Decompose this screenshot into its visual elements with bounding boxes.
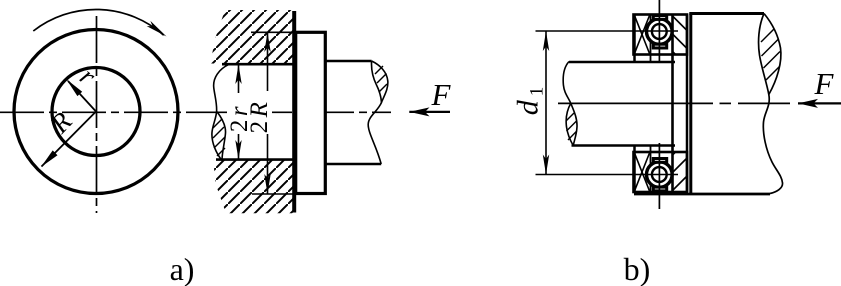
label r bbox=[74, 61, 102, 91]
bottom ball outer bbox=[647, 162, 673, 188]
label F (fig b) bbox=[814, 66, 835, 101]
svg-text:b): b) bbox=[624, 251, 651, 286]
extension line 2R bottom bbox=[252, 193, 294, 195]
bottom ball inner bbox=[652, 167, 667, 182]
extension line d1 bottom bbox=[536, 174, 679, 176]
dimension line 2r bbox=[235, 64, 241, 159]
top bearing block outline bbox=[634, 15, 688, 55]
label 2R bbox=[246, 91, 273, 134]
bottom race shoulder upper bbox=[653, 159, 666, 163]
hub right face line bbox=[671, 15, 674, 193]
label 2r bbox=[226, 93, 253, 134]
sleeve top edge bbox=[689, 12, 764, 15]
top race shoulder upper bbox=[653, 16, 666, 20]
dimension line 2R bbox=[264, 32, 270, 194]
journal break hatch bbox=[213, 119, 225, 156]
rotation arc arrow bbox=[33, 9, 166, 36]
force arrow F (fig a) bbox=[409, 107, 450, 116]
vertical centerline (fig b) bbox=[658, 0, 660, 209]
top ball outer bbox=[647, 19, 673, 45]
bottom race shoulder lower bbox=[653, 187, 666, 191]
bearing housing right edge bbox=[686, 15, 689, 193]
shaft lower edge bbox=[326, 163, 382, 166]
extension line 2R top bbox=[251, 31, 294, 33]
journal break line bbox=[212, 64, 229, 160]
horizontal centerline (fig a) bbox=[0, 111, 391, 113]
vertical centerline (fig a) bbox=[96, 16, 98, 213]
wall hatching upper bbox=[210, 10, 293, 64]
bottom bearing left cell X bbox=[635, 153, 650, 191]
top ball inner bbox=[652, 24, 667, 39]
journal hole upper edge bbox=[222, 63, 293, 66]
svg-text:a): a) bbox=[170, 251, 195, 286]
small shaft break hatch bbox=[566, 113, 577, 140]
svg-text:F: F bbox=[431, 77, 452, 112]
svg-text:F: F bbox=[814, 66, 835, 101]
journal hole lower edge bbox=[216, 158, 293, 161]
force arrow F (fig b) bbox=[798, 99, 841, 108]
hub left face line bbox=[633, 15, 636, 193]
sleeve break line bbox=[759, 14, 783, 194]
svg-text:2R: 2R bbox=[246, 99, 273, 134]
extension line d1 top bbox=[536, 30, 679, 32]
wall hatching lower bbox=[213, 160, 293, 213]
flange bbox=[296, 32, 326, 193]
label R bbox=[44, 106, 78, 140]
top bearing left cell divider bbox=[650, 15, 652, 63]
inner circle bbox=[52, 68, 140, 156]
bottom bearing block outline bbox=[634, 152, 688, 192]
label F (fig a) bbox=[431, 77, 452, 112]
shaft break hatch bbox=[375, 66, 387, 92]
top race shoulder lower bbox=[653, 44, 666, 48]
top bearing right cell diagonals bbox=[673, 16, 688, 55]
label a) bbox=[170, 251, 195, 286]
dimension line d1 bbox=[543, 31, 549, 175]
sleeve left face bbox=[689, 14, 692, 194]
small shaft break line bbox=[563, 62, 577, 146]
label b) bbox=[624, 251, 651, 286]
shaft upper edge bbox=[326, 60, 372, 63]
bottom bearing right cell diagonals bbox=[673, 152, 688, 191]
outer circle bbox=[14, 30, 178, 194]
wall face line bbox=[292, 11, 296, 213]
small shaft lower edge bbox=[572, 144, 676, 147]
top bearing left cell X bbox=[635, 16, 650, 54]
sleeve break hatch bbox=[761, 29, 780, 80]
small shaft upper edge bbox=[569, 61, 675, 64]
horizontal centerline (fig b) bbox=[558, 102, 790, 104]
shaft break line bbox=[368, 61, 388, 164]
bottom bearing left cell divider bbox=[650, 146, 652, 193]
sleeve bottom edge bbox=[634, 193, 770, 196]
radius arrow r bbox=[66, 79, 96, 111]
label d1 bbox=[512, 83, 548, 116]
radius arrow R bbox=[41, 112, 96, 168]
